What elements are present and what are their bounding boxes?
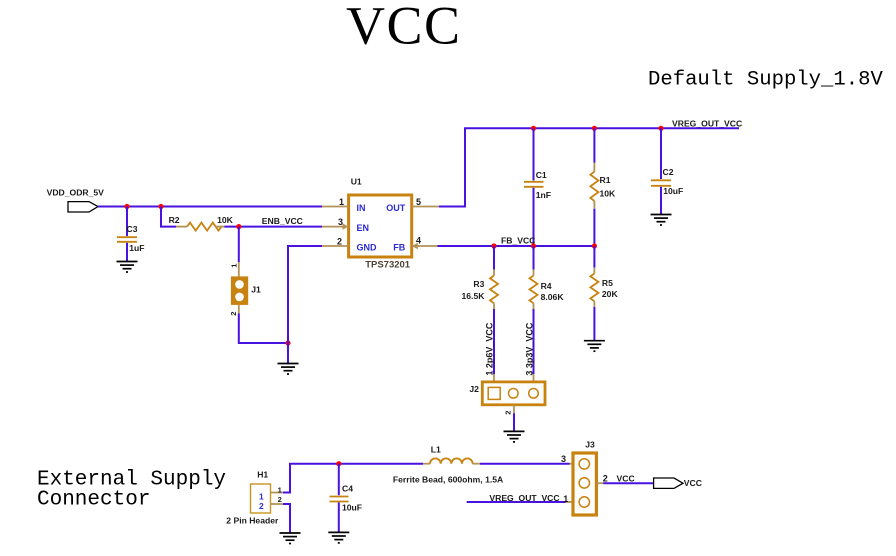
node junction C1 top <box>531 126 536 131</box>
wire VCC net <box>603 482 653 484</box>
wire VDD net horizontal <box>98 206 322 208</box>
inductor L1 Ferrite Bead <box>393 444 503 484</box>
svg-text:FB_VCC: FB_VCC <box>501 235 535 245</box>
pin H1.1 <box>271 492 284 494</box>
svg-text:J3: J3 <box>585 439 595 449</box>
jumper J1 <box>231 276 261 305</box>
ground below C2 <box>651 215 672 226</box>
wire R3 top <box>493 246 495 270</box>
pin U1.3 EN <box>322 226 349 228</box>
svg-text:1nF: 1nF <box>536 190 551 200</box>
wire C3 top <box>126 207 128 237</box>
svg-text:ENB_VCC: ENB_VCC <box>262 216 303 226</box>
pin J1.2 <box>238 305 240 314</box>
pin J1.1 <box>238 262 240 276</box>
svg-text:C1: C1 <box>536 170 547 180</box>
svg-text:1: 1 <box>339 197 344 207</box>
wire R4 to J2 pin3, net 3p3V_VCC <box>533 309 535 374</box>
resistor R2 10K <box>169 215 234 230</box>
svg-text:10uF: 10uF <box>663 186 683 196</box>
svg-text:U1: U1 <box>351 177 362 187</box>
svg-text:4: 4 <box>416 236 421 246</box>
svg-text:R3: R3 <box>473 279 484 289</box>
svg-text:GND: GND <box>357 243 378 253</box>
svg-text:10K: 10K <box>600 189 617 199</box>
wire R5 to ground <box>593 307 595 341</box>
svg-text:2: 2 <box>603 474 608 484</box>
capacitor C2 10uF <box>651 167 683 196</box>
resistor R3 16.5K <box>462 270 499 310</box>
wire J1 pin2 to ground junction <box>239 314 288 344</box>
pin U1.1 IN <box>322 206 349 208</box>
svg-text:R5: R5 <box>602 278 613 288</box>
wire C2 top <box>660 128 662 179</box>
svg-text:C4: C4 <box>342 484 353 494</box>
resistor R1 10K <box>590 163 616 209</box>
svg-text:C3: C3 <box>127 224 138 234</box>
svg-text:16.5K: 16.5K <box>462 291 486 301</box>
ground below R5 <box>584 341 605 352</box>
resistor R5 20K <box>590 268 618 307</box>
svg-text:8.06K: 8.06K <box>541 292 565 302</box>
svg-text:R2: R2 <box>169 215 180 225</box>
node junction R3 <box>491 243 496 248</box>
ground below C4 <box>328 532 349 543</box>
pin U1.2 GND <box>322 245 349 247</box>
svg-text:5: 5 <box>416 197 421 207</box>
capacitor C3 <box>117 224 144 253</box>
svg-text:VDD_ODR_5V: VDD_ODR_5V <box>47 187 105 197</box>
svg-text:Ferrite Bead, 600ohm, 1.5A: Ferrite Bead, 600ohm, 1.5A <box>393 474 503 484</box>
wire J1 pin1 up <box>238 227 240 262</box>
svg-text:Connector: Connector <box>37 488 150 511</box>
svg-text:1: 1 <box>259 491 264 501</box>
resistor R4 8.06K <box>530 270 565 310</box>
wire R3 to J2 pin1, net 2p6V_VCC <box>493 309 495 374</box>
wire R1 bottom <box>593 209 595 246</box>
svg-text:EN: EN <box>357 223 370 233</box>
svg-text:1 2p6V_VCC: 1 2p6V_VCC <box>485 322 495 376</box>
svg-text:J2: J2 <box>469 384 479 394</box>
node junction R4/C1 <box>531 243 536 248</box>
pin J2.3 <box>533 374 535 382</box>
wire C4 bottom <box>338 503 340 533</box>
svg-text:J1: J1 <box>251 284 261 294</box>
jumper J2 <box>469 382 545 405</box>
svg-text:VCC: VCC <box>684 478 702 488</box>
wire C1 top <box>533 128 535 180</box>
wire C2 bottom <box>660 187 662 215</box>
wire ENB_VCC <box>224 226 322 228</box>
node junction C4 <box>336 461 341 466</box>
pin U1.5 OUT <box>412 206 439 208</box>
ground below J2 <box>504 431 525 442</box>
svg-text:VREG_OUT_VCC: VREG_OUT_VCC <box>672 118 742 128</box>
svg-text:1: 1 <box>563 494 568 504</box>
ground below C3 <box>117 262 138 273</box>
pin J3.1 <box>566 501 573 503</box>
wire J2 pin2 to ground <box>513 413 515 431</box>
svg-text:R1: R1 <box>600 175 611 185</box>
pin J3.2 <box>596 482 603 484</box>
pin J2.2 <box>513 405 515 413</box>
pin J3.3 <box>570 463 574 465</box>
pin H1.2 <box>271 503 284 505</box>
wire OUT to top rail <box>439 128 739 206</box>
node junction C2 top <box>658 126 663 131</box>
node junction at R2 tap <box>158 204 163 209</box>
wire C1 bottom <box>533 188 535 246</box>
wire FB rail FB_VCC <box>438 245 595 247</box>
svg-text:TPS73201: TPS73201 <box>365 259 411 270</box>
svg-text:OUT: OUT <box>386 203 406 213</box>
capacitor C4 10uF <box>330 484 363 513</box>
node junction R1 top <box>592 126 597 131</box>
svg-text:C2: C2 <box>663 167 674 177</box>
wire H1 pin2 to ground <box>283 504 290 533</box>
port VCC <box>654 478 702 488</box>
wire R1 top <box>593 128 595 163</box>
ground below H1 <box>280 533 301 544</box>
svg-text:L1: L1 <box>431 444 441 454</box>
svg-text:3 3p3V_VCC: 3 3p3V_VCC <box>525 322 535 376</box>
capacitor C1 1nF <box>524 170 551 200</box>
svg-text:20K: 20K <box>602 289 619 299</box>
pin J2.1 <box>493 374 495 382</box>
svg-text:VCC: VCC <box>346 0 462 56</box>
svg-text:VREG_OUT_VCC: VREG_OUT_VCC <box>489 493 559 503</box>
svg-text:VCC: VCC <box>617 474 635 484</box>
op-amp U1 TPS73201 regulator <box>349 177 412 271</box>
svg-text:10K: 10K <box>217 215 234 225</box>
port VDD_ODR_5V <box>47 187 105 212</box>
svg-text:2: 2 <box>278 495 282 504</box>
svg-text:Default Supply_1.8V: Default Supply_1.8V <box>648 69 883 92</box>
wire L1 to J3 pin3 <box>480 463 570 465</box>
wire R4 top <box>533 246 535 270</box>
wire C4 top <box>338 464 340 496</box>
pin U1.4 FB <box>412 245 438 247</box>
svg-text:FB: FB <box>393 243 405 253</box>
header H1 2 Pin Header <box>226 470 279 526</box>
ground below J1 <box>278 364 299 375</box>
svg-text:2: 2 <box>504 411 513 415</box>
svg-text:2: 2 <box>229 312 238 316</box>
svg-text:1uF: 1uF <box>129 243 144 253</box>
svg-text:10uF: 10uF <box>342 503 362 513</box>
node junction at C3 tap <box>124 204 129 209</box>
svg-text:3: 3 <box>561 454 566 464</box>
svg-text:R4: R4 <box>541 281 552 291</box>
wire H1 pin1 to bottom rail <box>283 464 423 493</box>
svg-text:H1: H1 <box>257 470 268 480</box>
wire up to U1 GND <box>288 246 322 343</box>
svg-text:IN: IN <box>357 203 366 213</box>
wire R5 top <box>593 246 595 268</box>
svg-text:2: 2 <box>337 236 342 246</box>
svg-text:2: 2 <box>259 501 264 511</box>
wire ground stub <box>287 343 289 364</box>
wire VREG_OUT_VCC to J3 pin1 <box>467 501 566 503</box>
wire down to R2 <box>161 207 176 227</box>
jumper J3 <box>573 439 596 515</box>
wire C3 bottom <box>126 243 128 262</box>
node junction at ground <box>285 340 290 345</box>
svg-text:2 Pin Header: 2 Pin Header <box>226 515 279 525</box>
node junction at J1 tap <box>236 224 241 229</box>
svg-text:3: 3 <box>338 217 343 227</box>
node junction R5/R1 <box>592 243 597 248</box>
